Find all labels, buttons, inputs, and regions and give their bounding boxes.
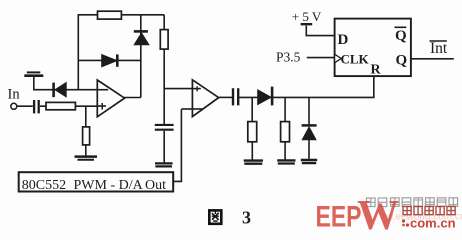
svg-text:Int: Int <box>430 40 448 57</box>
svg-text:P3.5: P3.5 <box>276 50 301 65</box>
svg-text:PWM - D/A: PWM - D/A <box>74 178 144 193</box>
svg-text:In: In <box>8 87 21 103</box>
svg-text:W: W <box>357 193 399 232</box>
svg-text:D: D <box>338 32 349 48</box>
svg-text:80C552: 80C552 <box>22 178 66 193</box>
svg-text:Q: Q <box>395 28 407 44</box>
svg-text:Q: Q <box>396 52 408 68</box>
svg-text:Out: Out <box>145 178 166 193</box>
svg-text:EEP: EEP <box>316 200 362 232</box>
svg-text:com.cn: com.cn <box>410 216 456 231</box>
svg-text:3: 3 <box>242 207 251 227</box>
svg-text:+ 5 V: + 5 V <box>292 9 322 24</box>
svg-text:CLK: CLK <box>341 51 370 66</box>
svg-text:R: R <box>371 62 382 77</box>
